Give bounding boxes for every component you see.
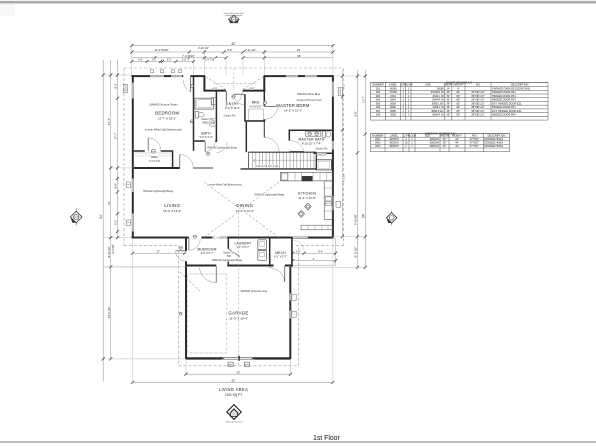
ceiling break dashed X over dining <box>204 182 279 238</box>
svg-text:36"X82 1/2": 36"X82 1/2" <box>471 90 485 94</box>
svg-text:Lenvar White Oak Butterscotch: Lenvar White Oak Butterscotch <box>207 183 242 186</box>
svg-text:22': 22' <box>237 371 241 375</box>
shower enclosure <box>316 160 331 170</box>
svg-text:Carpet 078 Iron Frost: Carpet 078 Iron Frost <box>255 165 278 168</box>
ceiling fixture symbol 1 <box>305 203 312 210</box>
svg-text:2644: 2644 <box>390 94 396 98</box>
svg-text:SIZE: SIZE <box>425 133 431 137</box>
dimension row 3 top <box>132 57 226 59</box>
svg-text:38"X82 1/2": 38"X82 1/2" <box>471 112 485 116</box>
svg-text:9'-0" X 4'-4": 9'-0" X 4'-4" <box>199 136 212 139</box>
svg-text:30": 30" <box>443 137 447 141</box>
dimension row 2 top <box>132 51 333 53</box>
svg-text:80": 80" <box>457 94 461 98</box>
svg-text:3052SH: 3052SH <box>389 141 398 145</box>
dimension: 17ft under living <box>133 252 185 254</box>
svg-text:3'-2": 3'-2" <box>114 220 118 225</box>
svg-text:HEIGHT: HEIGHT <box>452 133 462 137</box>
svg-text:16080: 16080 <box>437 86 445 90</box>
svg-text:DESCRIPTION: DESCRIPTION <box>511 83 529 87</box>
svg-text:9'-2": 9'-2" <box>114 83 118 88</box>
svg-text:SW6451 Nurture Green: SW6451 Nurture Green <box>149 102 178 106</box>
svg-text:36": 36" <box>446 105 450 109</box>
svg-text:003: 003 <box>376 94 381 98</box>
svg-text:007: 007 <box>376 109 381 113</box>
svg-text:R/O: R/O <box>472 133 477 137</box>
svg-text:DESCRIPTION: DESCRIPTION <box>488 133 506 137</box>
svg-text:GARAGE GARAGE DOOR CH05: GARAGE GARAGE DOOR CH05 <box>492 86 531 90</box>
svg-text:11'-7": 11'-7" <box>362 96 366 103</box>
svg-text:005: 005 <box>376 101 381 105</box>
symbol: closet light right <box>263 101 266 104</box>
dimension chain left inner <box>117 60 119 238</box>
entry closet MRG shelf <box>249 109 264 121</box>
shutter marks above bedroom windows <box>151 70 154 73</box>
svg-text:MRG: MRG <box>252 101 260 105</box>
bath door swing <box>204 141 206 151</box>
svg-text:1911 SQ FT: 1911 SQ FT <box>225 393 242 397</box>
master bath window <box>332 141 334 150</box>
svg-text:SW6210: SW6210 <box>317 154 327 157</box>
svg-text:Golden Tile: Golden Tile <box>315 148 328 151</box>
svg-text:14'-0 1/2": 14'-0 1/2" <box>107 307 111 319</box>
bath tub <box>195 98 213 109</box>
svg-text:37"X62": 37"X62" <box>470 144 479 148</box>
svg-text:MUDROOM: MUDROOM <box>197 247 216 251</box>
svg-text:37"X62": 37"X62" <box>470 141 479 145</box>
svg-text:15'-4" X 13'-4": 15'-4" X 13'-4" <box>163 209 181 213</box>
svg-text:6'-10 1/2" X 7'-4": 6'-10 1/2" X 7'-4" <box>302 141 321 145</box>
laundry door leaf <box>229 249 240 256</box>
garage door opener marks <box>228 362 233 366</box>
svg-text:Golden Tile: Golden Tile <box>201 118 214 121</box>
svg-text:2644: 2644 <box>390 98 396 102</box>
svg-text:3068 L IN: 3068 L IN <box>433 105 444 109</box>
symbol: wall control <box>190 120 193 123</box>
refrigerator <box>281 173 287 180</box>
mech west wall <box>269 238 271 266</box>
svg-text:32": 32" <box>446 98 450 102</box>
svg-text:KITCHEN: KITCHEN <box>298 191 316 195</box>
svg-text:3052SH: 3052SH <box>430 141 439 145</box>
svg-text:14'-2" X 13'-4": 14'-2" X 13'-4" <box>236 209 254 213</box>
svg-text:GARAGE: GARAGE <box>228 311 248 316</box>
svg-text:4'-1" X 5'-7": 4'-1" X 5'-7" <box>236 246 249 249</box>
kitchen right counter <box>324 181 333 219</box>
top dimension extension lines <box>131 44 133 75</box>
svg-text:HINGED DOOR P04: HINGED DOOR P04 <box>492 105 516 109</box>
bath east wall <box>215 92 217 142</box>
svg-text:80": 80" <box>457 109 461 113</box>
svg-text:36": 36" <box>446 109 450 113</box>
bedroom door leaf + swing (top wall) <box>189 77 191 92</box>
svg-text:4'-3" X 13'-2": 4'-3" X 13'-2" <box>225 106 240 110</box>
window top-left W2 <box>171 75 182 77</box>
roof valley dashed <box>180 272 200 291</box>
svg-text:Golden Tile: Golden Tile <box>223 253 235 255</box>
svg-text:38"X82 1/2": 38"X82 1/2" <box>471 101 485 105</box>
master bath west wall w/ door <box>288 130 290 140</box>
svg-text:27068: 27068 <box>389 90 397 94</box>
window top-right W3 <box>286 75 298 77</box>
svg-text:30": 30" <box>443 144 447 148</box>
svg-text:3068: 3068 <box>390 109 396 113</box>
svg-text:16080: 16080 <box>389 86 397 90</box>
svg-text:ENTRY: ENTRY <box>226 102 239 106</box>
mech-garage door swing <box>269 267 285 281</box>
svg-text:4'-2" X 5'-7": 4'-2" X 5'-7" <box>274 256 287 259</box>
garage south wall w/ garage door <box>186 357 220 359</box>
svg-text:36"X82 1/2": 36"X82 1/2" <box>471 98 485 102</box>
svg-text:R/O: R/O <box>476 83 481 87</box>
svg-text:SW6142 Minor Blue: SW6142 Minor Blue <box>297 92 321 96</box>
window in kitchen bottom wall <box>293 237 309 239</box>
bottom wall of utility row <box>186 265 216 267</box>
kitchen sink <box>326 197 332 201</box>
left elevation marker <box>75 209 77 226</box>
svg-text:80": 80" <box>457 98 461 102</box>
svg-text:4'-0": 4'-0" <box>250 88 255 91</box>
garage door jamb arrows <box>220 357 225 360</box>
svg-text:LIVING: LIVING <box>164 203 180 208</box>
window schedule table <box>371 133 510 151</box>
parking stall dashed outline <box>188 274 227 353</box>
symbol: light at mudroom door <box>193 235 196 238</box>
svg-text:W01: W01 <box>375 137 381 141</box>
svg-text:2644 L IN: 2644 L IN <box>433 94 444 98</box>
svg-text:30": 30" <box>443 141 447 145</box>
svg-text:9'-4": 9'-4" <box>114 183 118 188</box>
svg-text:80": 80" <box>457 112 461 116</box>
master bath door leaf + swing <box>290 150 304 152</box>
top page border line <box>0 1 596 4</box>
laundry west wall w/ door <box>227 238 229 249</box>
svg-text:NUMBER: NUMBER <box>372 83 383 87</box>
svg-text:MASTER BDRM: MASTER BDRM <box>276 103 309 108</box>
garage east wall w/ windows <box>289 267 291 294</box>
bath south wall w/ door <box>194 140 205 142</box>
svg-text:Second Elevation Mark: Second Elevation Mark <box>224 12 245 15</box>
bottom dimension extension lines <box>185 359 187 374</box>
wall right of stairs <box>315 153 317 170</box>
svg-text:7'-4 15/16": 7'-4 15/16" <box>182 54 194 58</box>
wall: left exterior with windows <box>132 75 134 83</box>
hall-entry door swing <box>217 142 227 152</box>
svg-text:34': 34' <box>362 214 366 219</box>
svg-text:WIDTH: WIDTH <box>440 133 449 137</box>
svg-text:001: 001 <box>376 86 381 90</box>
svg-text:3052SH: 3052SH <box>389 137 398 141</box>
svg-text:3'-2": 3'-2" <box>167 59 172 62</box>
svg-text:004: 004 <box>376 98 381 102</box>
staircase <box>249 151 317 153</box>
svg-text:9'-10 5/8": 9'-10 5/8" <box>354 214 358 225</box>
mudroom-garage door swing <box>199 268 216 283</box>
svg-text:002: 002 <box>376 90 381 94</box>
dimension chain left mid <box>110 60 112 359</box>
svg-text:54': 54' <box>99 214 103 219</box>
garage door panel <box>220 357 256 359</box>
MRG door leaf + swing <box>234 93 245 95</box>
symbol: entry light <box>232 95 235 98</box>
svg-text:21'-0" X 19'-4": 21'-0" X 19'-4" <box>229 316 247 320</box>
svg-text:3052SH: 3052SH <box>125 85 127 92</box>
svg-text:32": 32" <box>446 94 450 98</box>
svg-text:MECH: MECH <box>275 251 286 255</box>
living window W5 <box>132 179 134 193</box>
bath toilet <box>195 111 198 118</box>
svg-text:36": 36" <box>446 101 450 105</box>
dimension: overall 54ft left <box>102 60 104 382</box>
svg-text:3068: 3068 <box>390 105 396 109</box>
svg-text:3052SH: 3052SH <box>389 144 398 148</box>
svg-text:BATH: BATH <box>201 131 211 135</box>
symbol: porch post <box>180 246 183 249</box>
svg-text:EXT. HINGED DOOR E21: EXT. HINGED DOOR E21 <box>492 101 522 105</box>
mudroom ext door swing <box>176 250 186 252</box>
svg-text:14': 14' <box>107 201 111 205</box>
dryer <box>258 250 267 260</box>
stair hall door swing <box>265 138 279 152</box>
svg-text:3068: 3068 <box>390 112 396 116</box>
svg-text:SIZE: SIZE <box>425 83 431 87</box>
svg-text:38"X82 1/2": 38"X82 1/2" <box>471 109 485 113</box>
svg-text:38"X82 1/2": 38"X82 1/2" <box>471 105 485 109</box>
svg-text:LAUNDRY: LAUNDRY <box>234 241 252 245</box>
svg-text:42': 42' <box>231 379 235 383</box>
svg-text:2'-10 1/2": 2'-10 1/2" <box>198 46 209 50</box>
window label box left <box>123 85 127 93</box>
svg-text:4'-2" X 5'-7": 4'-2" X 5'-7" <box>200 252 213 255</box>
master bath north wall <box>289 129 333 131</box>
mudroom west wall w/ exterior door <box>185 239 187 251</box>
svg-text:27068 R IN: 27068 R IN <box>431 90 444 94</box>
svg-text:34": 34" <box>446 90 450 94</box>
svg-text:14'-2" X 11'-1": 14'-2" X 11'-1" <box>284 108 302 112</box>
svg-text:1st Floor: 1st Floor <box>313 435 341 442</box>
svg-text:SW6142 Lightweight Beige: SW6142 Lightweight Beige <box>212 259 243 262</box>
svg-text:80": 80" <box>457 101 461 105</box>
garage door center mullion <box>238 356 240 361</box>
dimensions under side porch <box>293 252 336 254</box>
svg-text:SW6210: SW6210 <box>202 122 212 125</box>
svg-text:8'-11 1/2": 8'-11 1/2" <box>107 246 111 257</box>
wall: top exterior (master bdrm side) with windows <box>264 75 287 77</box>
svg-text:17': 17' <box>156 250 160 254</box>
living window W6 <box>132 214 134 232</box>
svg-text:B10: B10 <box>227 256 232 258</box>
bath sink <box>210 119 216 127</box>
svg-text:3068 R EX: 3068 R EX <box>431 109 444 113</box>
svg-text:FLOOR: FLOOR <box>408 134 417 137</box>
symbol: bedroom door light <box>190 84 193 87</box>
svg-text:3068: 3068 <box>390 101 396 105</box>
dimension chain right mid <box>357 70 359 267</box>
dimension: overall 42ft top <box>132 45 333 47</box>
svg-text:3068 R IN: 3068 R IN <box>432 112 444 116</box>
svg-text:3052SH: 3052SH <box>430 137 439 141</box>
mudroom-living door leaf + swing <box>188 238 190 250</box>
svg-text:008: 008 <box>376 112 381 116</box>
bottom page border line <box>0 441 596 443</box>
top-left corner pale block <box>0 4 15 16</box>
svg-text:16': 16' <box>447 86 451 90</box>
front door swing arc <box>226 91 242 107</box>
svg-text:3'-3 3/4": 3'-3 3/4" <box>111 244 115 254</box>
svg-text:Carpet 078 Iron Frost: Carpet 078 Iron Frost <box>297 98 322 102</box>
roof overhang dashed outline, upper block <box>124 67 344 69</box>
kitchen window label box <box>336 201 340 207</box>
dimension: overall right <box>364 70 366 267</box>
svg-text:3068 L EX: 3068 L EX <box>432 101 444 105</box>
dimension: 22ft garage <box>186 373 291 375</box>
svg-text:19': 19' <box>297 48 301 52</box>
svg-text:LABEL: LABEL <box>389 83 398 87</box>
left dimension extension lines <box>103 74 132 76</box>
svg-text:4'-0": 4'-0" <box>212 88 217 91</box>
svg-text:44": 44" <box>455 141 459 145</box>
bedroom east wall <box>193 76 195 151</box>
svg-text:2'-4 7/16": 2'-4 7/16" <box>205 58 215 61</box>
svg-text:HINGED DOOR P04: HINGED DOOR P04 <box>492 90 516 94</box>
range (dark) <box>302 176 312 181</box>
svg-text:LABEL: LABEL <box>390 133 399 137</box>
kitchen window <box>332 196 334 210</box>
living window label boxes <box>126 182 130 188</box>
svg-text:EXT. HINGED DOOR E21: EXT. HINGED DOOR E21 <box>492 109 522 113</box>
washer <box>258 240 267 250</box>
master bath toilet <box>323 131 326 137</box>
svg-text:W02: W02 <box>375 141 381 145</box>
svg-text:WIDTH: WIDTH <box>444 84 452 87</box>
wall: entry/stair divider <box>245 122 247 152</box>
master bath south wall / closet top <box>314 152 333 154</box>
svg-text:LIVING AREA: LIVING AREA <box>219 387 248 392</box>
svg-text:W03: W03 <box>375 144 381 148</box>
svg-text:37"X62": 37"X62" <box>470 137 479 141</box>
porch roof dashed hips <box>206 77 227 90</box>
svg-text:MASTER BATH: MASTER BATH <box>298 137 324 141</box>
closet door leaf + swing <box>147 138 149 151</box>
svg-text:8'-11 1/2": 8'-11 1/2" <box>354 247 358 258</box>
side porch outline <box>293 239 336 266</box>
svg-text:SW6206 Uncertain Gray: SW6206 Uncertain Gray <box>240 290 268 293</box>
svg-text:11'-7" X 19'-2": 11'-7" X 19'-2" <box>158 116 176 120</box>
svg-text:DOUBLE HUNG: DOUBLE HUNG <box>485 144 504 148</box>
svg-text:HINGED DOOR P04: HINGED DOOR P04 <box>492 98 516 102</box>
svg-text:3052SH: 3052SH <box>340 87 342 94</box>
symbol: hall light <box>206 152 209 155</box>
hall-living door leaf + swing <box>179 155 181 168</box>
svg-text:4'-5 3/4": 4'-5 3/4" <box>341 173 345 183</box>
svg-text:SW6142 Lightweight Beige: SW6142 Lightweight Beige <box>254 194 285 197</box>
svg-text:9'-2": 9'-2" <box>341 84 345 89</box>
dimension row 4 top <box>132 60 194 62</box>
svg-text:36"X82 1/2": 36"X82 1/2" <box>471 94 485 98</box>
svg-text:7'-4 X 3'-0": 7'-4 X 3'-0" <box>149 160 161 163</box>
svg-text:DOUBLE HUNG: DOUBLE HUNG <box>485 141 504 145</box>
wall: bottom exterior of upper block <box>132 237 189 239</box>
svg-text:6'-6": 6'-6" <box>354 111 358 116</box>
svg-text:DINING: DINING <box>236 203 253 208</box>
svg-text:3'-2": 3'-2" <box>152 59 157 62</box>
master bath vanity <box>306 131 321 136</box>
svg-text:HINGED DOOR P04: HINGED DOOR P04 <box>492 94 516 98</box>
door schedule table <box>371 83 549 120</box>
svg-text:9'-6": 9'-6" <box>227 48 232 52</box>
svg-text:3052SH: 3052SH <box>430 144 439 148</box>
mech east wall <box>291 238 293 267</box>
entry closet MRG walls <box>244 94 246 121</box>
bedroom closet walls <box>134 150 145 152</box>
builder logo <box>227 405 241 420</box>
master bdrm door leaf + swing <box>265 106 278 108</box>
svg-text:17'-7": 17'-7" <box>107 118 111 125</box>
svg-text:2644 R IN: 2644 R IN <box>432 98 444 102</box>
bath vanity <box>211 98 216 105</box>
svg-text:HEIGHT: HEIGHT <box>453 83 463 87</box>
kitchen bottom counter <box>301 225 333 230</box>
bedroom window 3052SH <box>132 83 134 99</box>
svg-text:006: 006 <box>376 105 381 109</box>
svg-text:42': 42' <box>231 42 236 46</box>
window label box right <box>338 87 342 95</box>
symbol: porch post at garage side <box>179 312 182 315</box>
ridge dashed centerline <box>238 212 240 365</box>
svg-text:2'-0": 2'-0" <box>182 59 187 62</box>
svg-text:DOUBLE HUNG: DOUBLE HUNG <box>485 137 504 141</box>
master bdrm window 3052SH <box>332 82 334 97</box>
svg-text:Lenvar White Oak Butterscotch: Lenvar White Oak Butterscotch <box>145 128 183 132</box>
right elevation marker <box>391 211 393 226</box>
entry recess left wall <box>203 76 205 92</box>
svg-text:UP: UP <box>252 158 256 162</box>
svg-text:44": 44" <box>455 137 459 141</box>
svg-text:36": 36" <box>446 112 450 116</box>
roof overhang dashed outline, garage <box>178 246 180 366</box>
svg-text:2'-11 1/2": 2'-11 1/2" <box>245 48 256 52</box>
wall: right exterior with windows <box>332 75 334 82</box>
svg-text:17'-7": 17'-7" <box>114 133 118 140</box>
window top-right W4 <box>305 75 317 77</box>
svg-text:3'-2": 3'-2" <box>296 251 301 254</box>
ceiling fixture symbol 2 <box>298 211 305 218</box>
dimension chain right near <box>342 70 344 237</box>
svg-text:12'-1 15/16": 12'-1 15/16" <box>154 48 168 52</box>
right dimension extension lines <box>333 75 366 77</box>
kitchen top cabinet run <box>281 172 333 181</box>
svg-text:Legacy Design Firm: Legacy Design Firm <box>225 422 243 424</box>
svg-text:11'-4" X 13'-6": 11'-4" X 13'-6" <box>298 196 315 200</box>
svg-text:Golden Tile: Golden Tile <box>223 115 236 118</box>
svg-text:80": 80" <box>457 90 461 94</box>
closet shelf lines <box>135 152 172 154</box>
svg-text:9'-4": 9'-4" <box>318 251 323 254</box>
porch front wall w/ front door opening <box>204 90 226 92</box>
svg-text:44": 44" <box>455 144 459 148</box>
svg-text:HINGED DOOR P04: HINGED DOOR P04 <box>492 112 516 116</box>
svg-text:MRG: MRG <box>151 155 158 159</box>
symbol: closet light <box>151 149 155 153</box>
garage west wall <box>185 267 187 359</box>
svg-text:FLOOR: FLOOR <box>404 84 413 87</box>
svg-text:NUMBER: NUMBER <box>372 133 383 137</box>
wall below closet / hall south wall w/ door to living <box>134 167 180 169</box>
front door leaf <box>225 91 227 107</box>
svg-text:80": 80" <box>457 105 461 109</box>
wall: top exterior (bedroom side) with windows <box>132 75 151 77</box>
svg-text:4'-0 X 8'-0": 4'-0 X 8'-0" <box>249 105 261 108</box>
